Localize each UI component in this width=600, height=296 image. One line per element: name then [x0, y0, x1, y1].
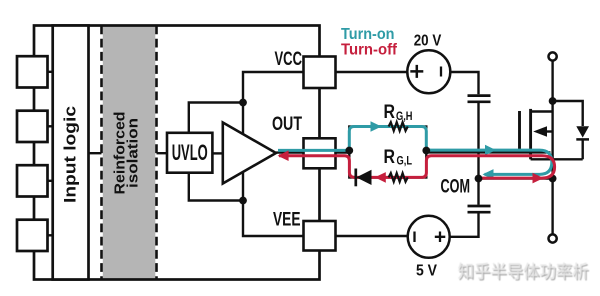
- transistor Q1 drain lead: [531, 110, 553, 112]
- wire logic to barrier: [89, 152, 102, 154]
- node rail-bottom junction: [239, 197, 247, 205]
- transistor Q1 channel bar: [529, 109, 532, 159]
- diode D1: [356, 170, 371, 185]
- V1 plus sign: [410, 65, 423, 78]
- wire drain terminal down: [551, 61, 553, 179]
- V2 plus sign: [435, 232, 446, 243]
- body diode D2: [553, 101, 583, 159]
- wire cap C1 to COM: [477, 103, 479, 179]
- input pin 3: [17, 165, 48, 196]
- source terminal: [549, 234, 557, 242]
- svg-text:Input logic: Input logic: [61, 106, 80, 203]
- transistor Q1 gate bar: [518, 111, 521, 152]
- teal arrow return to COM: [483, 169, 494, 180]
- svg-text:isolation: isolation: [125, 118, 142, 188]
- svg-text:20 V: 20 V: [414, 33, 442, 50]
- svg-text:5 V: 5 V: [416, 263, 438, 280]
- node OUT-left: [345, 147, 353, 155]
- OUT pin box: [304, 138, 336, 168]
- node COM-cap junction: [475, 175, 483, 183]
- wire 5V source to cap: [450, 214, 479, 237]
- wire 20V source to cap: [450, 72, 478, 94]
- 20V source V1: [407, 50, 450, 93]
- transistor Q1 source lead: [531, 158, 583, 160]
- node drain-diode junction: [549, 97, 557, 105]
- capacitor C2 bottom plate: [468, 211, 491, 214]
- wire VCC rail: [243, 72, 304, 236]
- svg-text:R: R: [384, 101, 396, 123]
- capacitor C1 top plate: [468, 94, 491, 97]
- input pin 1: [17, 56, 48, 87]
- svg-text:Turn-off: Turn-off: [341, 42, 398, 59]
- wire buffer output to OUT pin: [276, 151, 350, 153]
- isolation barrier gray bar: [103, 26, 156, 280]
- UVLO box U1: [167, 133, 212, 173]
- gate driver outer box: [34, 26, 320, 280]
- wire cap C2 to COM: [477, 179, 479, 205]
- svg-text:VCC: VCC: [275, 48, 303, 70]
- input pin 2: [17, 111, 48, 142]
- gate resistor network loop: [349, 127, 426, 178]
- svg-text:G,L: G,L: [397, 155, 413, 167]
- op-amp buffer triangle: [223, 123, 276, 184]
- wire VCC pin to 20V source: [336, 71, 408, 73]
- drain terminal: [549, 52, 557, 60]
- svg-text:R: R: [384, 146, 396, 168]
- input pin 4: [17, 220, 48, 251]
- teal arrow on RGH branch: [371, 121, 382, 132]
- turn-on current path (teal): [278, 127, 552, 175]
- 5V source V2: [408, 216, 450, 258]
- capacitor C2 top plate: [468, 205, 491, 208]
- wire VEE pin to 5V source: [336, 235, 408, 237]
- svg-text:VEE: VEE: [273, 209, 301, 231]
- resistor RGH: [389, 122, 408, 131]
- wire UVLO to buffer: [212, 152, 222, 154]
- capacitor C1 bottom plate: [468, 100, 491, 103]
- input logic box: [53, 26, 89, 280]
- wire pin1 stub: [48, 71, 53, 73]
- svg-text:知乎半导体功率析: 知乎半导体功率析: [458, 261, 589, 281]
- wire UVLO bottom supply: [189, 173, 243, 201]
- VEE pin box: [304, 221, 336, 251]
- node gate-right: [422, 147, 430, 155]
- wire pin4 stub: [48, 234, 53, 236]
- transistor Q1 bulk arrow: [533, 126, 547, 137]
- svg-text:UVLO: UVLO: [172, 140, 208, 165]
- svg-text:G,H: G,H: [396, 111, 413, 123]
- wire COM net: [479, 177, 553, 179]
- node rail-top junction: [239, 99, 247, 107]
- wire source terminal down: [551, 179, 553, 235]
- V1 minus bar: [440, 67, 442, 77]
- red arrow into OUT: [278, 150, 289, 161]
- node source-COM junction: [549, 175, 557, 183]
- VCC pin box: [304, 57, 336, 89]
- wire pin3 stub: [48, 180, 53, 182]
- wire barrier to UVLO: [157, 152, 168, 154]
- isolation barrier right dashed border: [155, 26, 158, 280]
- wire pin2 stub: [48, 125, 53, 127]
- svg-text:Turn-on: Turn-on: [341, 26, 395, 43]
- svg-text:OUT: OUT: [272, 113, 302, 135]
- resistor RGL: [389, 173, 408, 182]
- red arrow on RGL branch: [375, 172, 386, 183]
- isolation barrier left dashed border: [100, 26, 103, 280]
- svg-text:COM: COM: [441, 175, 471, 197]
- wire UVLO top supply: [189, 103, 243, 133]
- red arrow on COM wire: [533, 173, 544, 184]
- teal arrow on gate wire: [485, 145, 496, 156]
- turn-off current path (red): [279, 156, 555, 178]
- V2 minus bar: [413, 232, 415, 243]
- wire gate lead: [426, 151, 550, 153]
